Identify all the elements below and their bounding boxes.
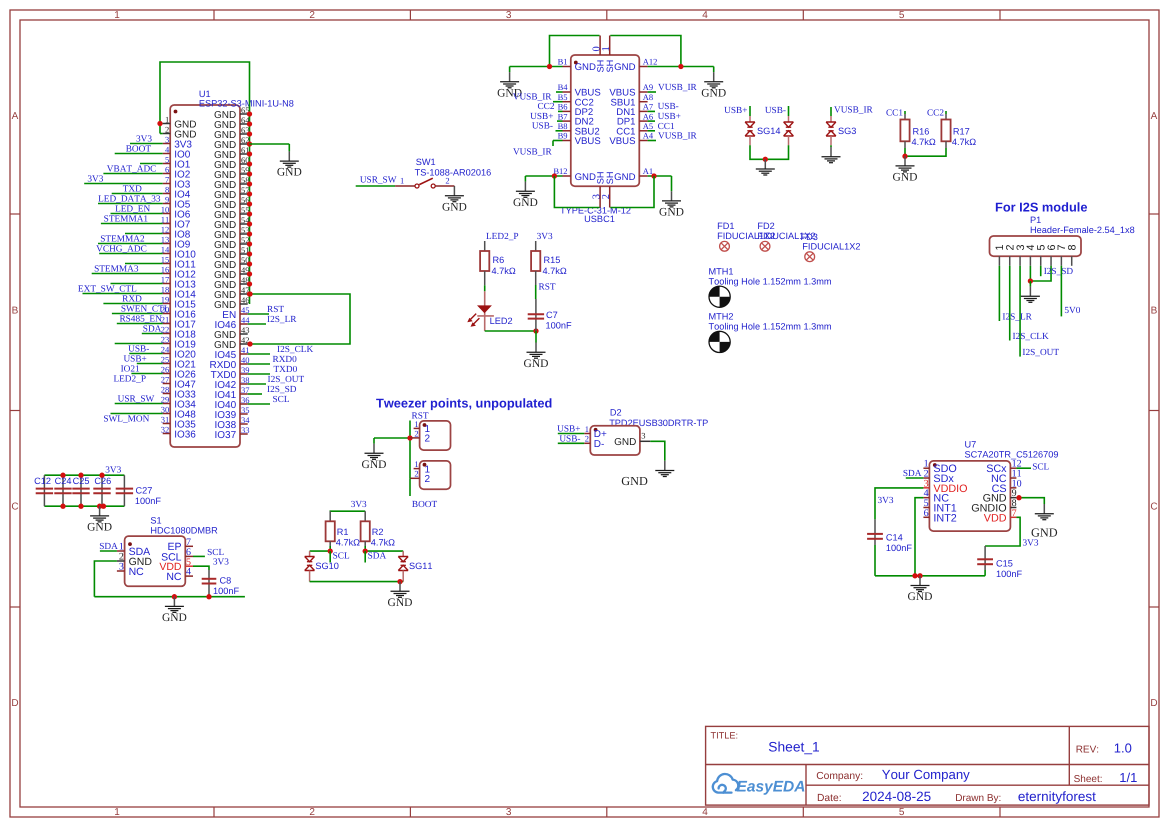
junction at S1 ground rail (172, 594, 177, 599)
svg-text:B8: B8 (558, 121, 568, 131)
wire: U1 pins 1,2 to GND bus loop over top (160, 123, 163, 125)
svg-text:IO21: IO21 (121, 364, 140, 374)
svg-text:GND: GND (893, 172, 918, 184)
svg-text:A5: A5 (643, 121, 653, 131)
svg-text:C26: C26 (94, 476, 111, 486)
junction at C8 ground (206, 594, 211, 599)
svg-text:BOOT: BOOT (412, 500, 438, 510)
wire: tweezer RST net (409, 421, 411, 479)
svg-text:1: 1 (414, 419, 418, 429)
svg-text:STEMMA1: STEMMA1 (104, 214, 149, 224)
svg-text:USB+: USB+ (658, 112, 681, 122)
D2 pin-1 marker (594, 428, 598, 432)
svg-text:GND: GND (513, 197, 538, 209)
svg-text:NC: NC (166, 571, 182, 583)
wire: C14 to ground rail (874, 545, 876, 576)
svg-text:eternityforest: eternityforest (1018, 789, 1096, 804)
svg-text:USR_SW: USR_SW (118, 394, 155, 404)
wire: R2 to SG11 node (364, 546, 366, 551)
svg-text:I2S_SD: I2S_SD (1044, 267, 1074, 277)
junction at U7 pin 9 (1016, 495, 1021, 500)
svg-text:USB+: USB+ (724, 106, 747, 116)
svg-text:C: C (1150, 501, 1157, 512)
svg-text:GND: GND (701, 87, 726, 99)
svg-text:A: A (12, 111, 19, 122)
svg-text:2: 2 (309, 10, 315, 21)
U7 pin-1 marker (933, 463, 937, 467)
svg-text:VUSB_IR: VUSB_IR (658, 83, 698, 93)
svg-text:2: 2 (309, 807, 315, 818)
wire: USB- to D2 pin 2 (558, 442, 585, 444)
svg-text:A8: A8 (643, 92, 653, 102)
svg-text:VBAT_ADC: VBAT_ADC (107, 164, 157, 174)
svg-text:GND: GND (659, 207, 684, 219)
svg-text:SH: SH (596, 60, 606, 73)
svg-text:1.0: 1.0 (1114, 741, 1132, 756)
svg-text:FD1: FD1 (717, 221, 734, 231)
svg-text:27: 27 (161, 374, 170, 384)
wire: U7 pin 3 VDDIO to 3V3/C14 (875, 488, 923, 520)
svg-text:1: 1 (400, 176, 404, 186)
IC U1 body (170, 105, 240, 447)
TVS diode SG10 (309, 551, 311, 556)
svg-text:For I2S module: For I2S module (995, 200, 1087, 215)
wire: A12 to ground (648, 66, 714, 68)
wire: BOOT net stub (409, 478, 411, 496)
svg-text:4.7kΩ: 4.7kΩ (912, 137, 936, 147)
ground symbol at U7 (919, 576, 921, 586)
svg-text:EasyEDA: EasyEDA (737, 779, 806, 796)
svg-text:7: 7 (1012, 508, 1017, 519)
USBC1 left pins (stubs, numbers, names) (563, 66, 571, 68)
svg-text:STEMMA3: STEMMA3 (94, 264, 139, 274)
svg-text:R2: R2 (372, 527, 384, 537)
connector USBC1 body (571, 55, 640, 186)
EasyEDA logo (713, 774, 738, 793)
svg-text:LED_EN: LED_EN (115, 204, 150, 214)
svg-text:GND: GND (575, 172, 596, 183)
svg-text:7: 7 (165, 174, 169, 184)
fiducial FD1 symbol (720, 241, 730, 251)
ground symbol at SW1 (453, 186, 455, 196)
svg-text:Date:: Date: (817, 793, 842, 804)
S1 pin 2 (117, 560, 125, 562)
svg-text:RST: RST (539, 283, 556, 293)
tweezer point BOOT body (420, 461, 451, 489)
svg-text:2: 2 (585, 434, 589, 444)
svg-text:100nF: 100nF (213, 586, 239, 596)
capacitor C15 (984, 546, 986, 570)
svg-text:3V3: 3V3 (105, 466, 121, 476)
svg-text:2: 2 (601, 194, 612, 199)
svg-text:GND: GND (621, 474, 648, 488)
svg-text:RXD0: RXD0 (273, 355, 298, 365)
svg-text:MTH1: MTH1 (709, 267, 734, 277)
svg-text:A1: A1 (643, 166, 653, 176)
USBC1 left net wires (556, 91, 563, 93)
svg-text:FIDUCIAL1X2: FIDUCIAL1X2 (802, 241, 860, 251)
svg-text:3V3: 3V3 (351, 500, 367, 510)
S1 pin-1 marker (128, 542, 132, 546)
ground symbol at R16/R17 (904, 156, 906, 166)
svg-text:Sheet:: Sheet: (1074, 774, 1103, 785)
wire: cap bank 3V3 rail (44, 474, 124, 476)
svg-text:A6: A6 (643, 111, 653, 121)
TVS diode SG3 (830, 107, 832, 116)
svg-text:CC2: CC2 (927, 109, 944, 119)
U1 right net wires and labels (248, 313, 269, 315)
svg-text:100nF: 100nF (886, 543, 912, 553)
wire: U7 pin 7 VDD to C15 (985, 517, 1020, 546)
svg-text:46: 46 (241, 295, 250, 305)
svg-text:GND: GND (614, 437, 636, 448)
wire: tweezer to ground (374, 437, 410, 439)
wire: P1 pin 4 to ground (1029, 266, 1031, 281)
P1 pin stubs (998, 256, 1000, 266)
svg-text:USB-: USB- (658, 102, 679, 112)
svg-text:STEMMA2: STEMMA2 (100, 234, 145, 244)
wire: cap bank ground rail (44, 505, 124, 507)
ground symbol at USBC1 A1 (671, 176, 673, 191)
svg-text:U7: U7 (965, 440, 977, 450)
tweezer RST pins (414, 427, 420, 429)
USBC1 right net wires (648, 91, 656, 93)
svg-text:1: 1 (414, 459, 418, 469)
svg-text:4: 4 (186, 567, 191, 578)
junction at B12 wire (552, 173, 557, 178)
svg-text:2: 2 (425, 434, 431, 445)
wire: R1 to SG10 node (329, 546, 331, 551)
svg-text:SH: SH (596, 172, 606, 185)
svg-text:VBUS: VBUS (609, 136, 635, 147)
U7 body (929, 461, 1010, 531)
svg-text:EXT_SW_CTL: EXT_SW_CTL (78, 284, 137, 294)
junction at U1 pin 1 (157, 121, 162, 126)
svg-text:B6: B6 (558, 102, 568, 112)
svg-text:4.7kΩ: 4.7kΩ (336, 538, 360, 548)
wire: SG3 to ground (830, 145, 832, 147)
fiducial FD3 symbol (805, 252, 815, 262)
U1 left pins 1-32 (stubs, numbers, names) (163, 123, 171, 125)
ground symbol at SG3 (830, 147, 832, 157)
svg-text:32: 32 (161, 424, 170, 434)
svg-text:5: 5 (899, 10, 905, 21)
svg-text:TS-1088-AR02016: TS-1088-AR02016 (415, 168, 492, 178)
svg-text:3V3: 3V3 (213, 558, 229, 568)
net label SDA stub (364, 551, 366, 562)
wire: A1 to ground (648, 175, 672, 177)
ground symbol at USBC1 A12 (713, 67, 715, 73)
svg-text:USB+: USB+ (123, 354, 146, 364)
svg-text:Company:: Company: (816, 771, 863, 782)
wire: R6 to LED2 (484, 271, 486, 285)
svg-text:SDA: SDA (368, 551, 387, 561)
wire: SH0 loop to B1 (550, 36, 600, 67)
svg-text:31: 31 (161, 414, 170, 424)
svg-text:1: 1 (114, 10, 120, 21)
svg-text:SCL: SCL (333, 551, 350, 561)
U7 left pins (923, 467, 929, 469)
LED2 emission arrows (471, 314, 477, 320)
svg-text:P1: P1 (1030, 215, 1041, 225)
wire: USB+ to D2 pin 1 (558, 433, 585, 435)
wire: B1 to ground (510, 66, 563, 68)
svg-text:Drawn By:: Drawn By: (955, 793, 1001, 804)
S1 pin 3 (117, 570, 125, 572)
svg-text:3V3: 3V3 (1023, 539, 1039, 549)
junction at R1/SCL (328, 548, 333, 553)
ground symbol at S1 (173, 597, 175, 607)
svg-text:2: 2 (414, 469, 418, 479)
svg-text:HDC1080DMBR: HDC1080DMBR (150, 526, 218, 536)
ground symbol below C7 (535, 331, 537, 343)
tweezer RST pin-1 marker (423, 423, 427, 427)
S1 pin 1 (117, 550, 125, 552)
svg-text:R6: R6 (493, 255, 505, 265)
svg-text:GND: GND (277, 167, 302, 179)
svg-text:C: C (11, 501, 18, 512)
junction at tweezer ground (407, 435, 412, 440)
svg-text:RXD: RXD (122, 294, 142, 304)
svg-text:GND: GND (524, 358, 549, 370)
svg-text:SCL: SCL (207, 548, 224, 558)
svg-text:3V3: 3V3 (136, 134, 152, 144)
USBC1 pin-1 marker (574, 61, 578, 65)
svg-text:1: 1 (585, 424, 589, 434)
resistor R6 (484, 241, 486, 251)
svg-text:5: 5 (899, 807, 905, 818)
USBC1 right pins (stubs, numbers, names) (639, 66, 647, 68)
svg-text:3: 3 (506, 807, 512, 818)
svg-text:NC: NC (129, 566, 145, 578)
svg-text:GND: GND (614, 62, 635, 73)
svg-text:Header-Female-2.54_1x8: Header-Female-2.54_1x8 (1030, 225, 1135, 235)
junction at P1 ground node (1028, 278, 1033, 283)
svg-text:8: 8 (1067, 244, 1079, 250)
header P1 body (990, 236, 1082, 256)
svg-text:VUSB_IR: VUSB_IR (513, 148, 553, 158)
resistor R16 (904, 111, 906, 114)
svg-text:1: 1 (165, 114, 169, 124)
svg-text:4.7kΩ: 4.7kΩ (543, 266, 567, 276)
svg-text:100nF: 100nF (996, 569, 1022, 579)
wire: P1 pin 7 (5V0) (1060, 266, 1062, 317)
junction at U7 gnd stem (917, 573, 922, 578)
svg-text:SDA: SDA (143, 324, 162, 334)
svg-text:Tooling Hole 1.152mm 1.3mm: Tooling Hole 1.152mm 1.3mm (709, 277, 832, 287)
svg-text:5: 5 (165, 154, 169, 164)
capacitor C14 (874, 519, 876, 545)
svg-text:USBC1: USBC1 (584, 214, 615, 224)
svg-text:IO37: IO37 (215, 430, 237, 441)
svg-text:VUSB_IR: VUSB_IR (513, 93, 553, 103)
junction at A1 wire (651, 173, 656, 178)
wire: SH2 loop to A1 (610, 176, 654, 208)
svg-text:GND: GND (362, 459, 387, 471)
ground symbol at SG14 (764, 159, 766, 169)
svg-text:28: 28 (161, 384, 170, 394)
svg-text:B1: B1 (558, 57, 568, 67)
junction at B1 wire (547, 64, 552, 69)
svg-text:6: 6 (165, 164, 169, 174)
svg-text:Tweezer points, unpopulated: Tweezer points, unpopulated (376, 396, 552, 411)
svg-text:USB+: USB+ (530, 112, 553, 122)
wire: SDA to S1 pin 1 (100, 550, 117, 552)
TVS diode SG14 (dual) (749, 106, 751, 116)
svg-text:Your Company: Your Company (882, 767, 970, 782)
S1 body (125, 536, 186, 586)
svg-text:REV:: REV: (1076, 745, 1099, 756)
U7 right pins (1010, 467, 1016, 469)
svg-text:I2S_CLK: I2S_CLK (277, 345, 313, 355)
svg-text:2: 2 (425, 474, 431, 485)
svg-text:VCHG_ADC: VCHG_ADC (96, 244, 147, 254)
U1 pin-1 marker (174, 110, 178, 114)
D2 pin 3 (640, 440, 650, 442)
ground symbol at U1 pin 62 (288, 144, 290, 151)
svg-text:GND: GND (1031, 525, 1058, 539)
svg-text:Sheet_1: Sheet_1 (768, 740, 819, 755)
svg-text:3: 3 (165, 134, 169, 144)
junction at SG14 ground (763, 157, 768, 162)
resistor R17 (945, 111, 947, 114)
wire: S1 pin 5 VDD to C8 (193, 566, 209, 570)
svg-text:A4: A4 (643, 131, 654, 141)
wire: P1 pin 3 (I2S_OUT) (1019, 266, 1021, 357)
svg-text:TXD: TXD (123, 184, 142, 194)
USBC1 shield pins SH (rotated) (599, 36, 601, 56)
svg-text:4.7kΩ: 4.7kΩ (371, 538, 395, 548)
junction at pin 42 wire (247, 341, 252, 346)
svg-text:GND: GND (575, 62, 596, 73)
svg-text:33: 33 (241, 425, 250, 435)
ground symbol at D2 (664, 461, 666, 471)
D2 pin 2 (584, 442, 590, 444)
svg-text:34: 34 (241, 415, 250, 425)
wire: SG14 to ground (750, 145, 789, 159)
svg-text:2: 2 (414, 428, 418, 438)
svg-text:B5: B5 (558, 92, 568, 102)
wire: P1 pin 2 (I2S_CLK) (1009, 266, 1011, 341)
svg-text:I2S_SD: I2S_SD (267, 385, 297, 395)
wire: pin 62 to ground (250, 143, 290, 145)
ground symbol at cap bank (99, 506, 101, 516)
junction at A12 wire (678, 64, 683, 69)
capacitors C12 C24 C25 C26 C27 (43, 475, 45, 506)
svg-text:GND: GND (388, 597, 413, 609)
svg-text:CC1: CC1 (886, 109, 903, 119)
wire: U7 pin 4 to ground rail (915, 498, 923, 576)
svg-text:VUSB_IR: VUSB_IR (834, 106, 874, 116)
ground symbol at USBC1 B1 (509, 67, 511, 73)
wire: R15 to C7 (535, 271, 537, 285)
D2 pin 1 (584, 433, 590, 435)
wire: SH3 loop to B12 (554, 176, 599, 208)
svg-text:1/1: 1/1 (1119, 770, 1137, 785)
junctions on cap bank rails (60, 473, 65, 478)
svg-text:CC2: CC2 (537, 102, 554, 112)
svg-text:MTH2: MTH2 (709, 312, 734, 322)
junction at pin 47 wire (247, 291, 252, 296)
ground symbol at U7 pin 9 (1043, 504, 1045, 514)
svg-text:LED_DATA_33: LED_DATA_33 (98, 194, 161, 204)
svg-text:LED2_P: LED2_P (486, 232, 519, 242)
svg-text:R17: R17 (953, 127, 970, 137)
svg-text:C12: C12 (34, 476, 51, 486)
svg-text:B: B (1151, 306, 1158, 317)
wire: P1 pin 1 (I2S_LR) (998, 266, 1000, 321)
svg-text:GND: GND (908, 591, 933, 603)
svg-text:5V0: 5V0 (1064, 306, 1080, 316)
svg-text:A7: A7 (643, 102, 653, 112)
svg-text:C8: C8 (220, 576, 232, 586)
title block frame (706, 726, 1149, 805)
U1 right pins 65-33 (stubs, numbers, names) (240, 113, 248, 115)
wire: USR_SW to SW1 pin 1 (356, 185, 395, 187)
svg-text:I2S_LR: I2S_LR (1002, 312, 1032, 322)
svg-text:D: D (11, 698, 18, 709)
wire: U7 pin 9 to ground (1016, 498, 1044, 504)
junctions on right GND bus (247, 111, 252, 116)
svg-text:TITLE:: TITLE: (711, 730, 739, 740)
wire: LED2 cathode to C7 node (485, 330, 536, 332)
capacitor C8 (202, 578, 217, 580)
svg-text:2024-08-25: 2024-08-25 (862, 789, 931, 804)
net label SCL stub (329, 551, 331, 562)
svg-text:35: 35 (241, 405, 250, 415)
svg-text:C27: C27 (136, 486, 153, 496)
tweezer BOOT pin-1 marker (423, 463, 427, 467)
wire: P1 pin 6 to ground (1030, 266, 1051, 281)
ground symbol at SG10/SG11 (399, 582, 401, 592)
LED LED2 (484, 291, 486, 331)
svg-text:C15: C15 (996, 559, 1013, 569)
svg-text:2: 2 (165, 124, 169, 134)
svg-text:SWL_MON: SWL_MON (103, 414, 149, 424)
tooling hole MTH2 symbol (709, 331, 730, 352)
svg-text:S1: S1 (150, 516, 161, 526)
svg-text:A12: A12 (643, 57, 658, 67)
TVS diode SG11 (402, 551, 404, 556)
resistor R1 (329, 511, 331, 521)
svg-text:9: 9 (165, 194, 169, 204)
svg-text:A: A (1151, 111, 1158, 122)
svg-text:4: 4 (165, 144, 170, 154)
svg-text:3: 3 (506, 10, 512, 21)
svg-text:SG14: SG14 (757, 126, 781, 136)
junction at LED2/C7 ground node (533, 328, 538, 333)
U1 left net wires and labels (130, 143, 163, 145)
svg-text:A9: A9 (643, 82, 653, 92)
wire: C15 to ground rail (984, 570, 986, 576)
svg-text:GND: GND (162, 612, 187, 624)
wire: U7 pin 12 SCx to SCL (1016, 467, 1031, 469)
wire: R1/R2 3V3 rail (330, 510, 366, 512)
svg-text:SG3: SG3 (838, 126, 856, 136)
svg-text:4.7kΩ: 4.7kΩ (492, 266, 516, 276)
svg-text:GND: GND (442, 201, 467, 213)
svg-text:SCL: SCL (273, 395, 290, 405)
svg-text:C24: C24 (55, 476, 72, 486)
svg-text:SH: SH (605, 60, 615, 73)
svg-text:VDD: VDD (984, 512, 1007, 524)
svg-text:GND: GND (614, 172, 635, 183)
svg-text:C25: C25 (73, 476, 90, 486)
wire: D2 pin 3 to ground (650, 441, 665, 461)
wire: U1 pin 47 loop to pin 42 (248, 294, 350, 344)
svg-text:Tooling Hole 1.152mm 1.3mm: Tooling Hole 1.152mm 1.3mm (709, 322, 832, 332)
svg-text:4: 4 (702, 807, 708, 818)
